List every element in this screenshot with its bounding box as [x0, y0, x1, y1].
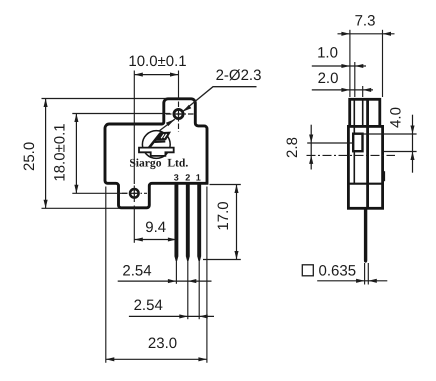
extension line at body bottom right [210, 184, 241, 186]
mounting hole top (in tab) [174, 109, 183, 118]
extension line side right edge [382, 30, 384, 97]
side view main body section [348, 126, 382, 208]
bottom hole vertical centerline [133, 186, 135, 204]
extension line bump bottom [384, 151, 417, 153]
svg-text:2.54: 2.54 [134, 297, 163, 314]
svg-text:2.54: 2.54 [122, 263, 151, 280]
pin3 extension line [175, 261, 177, 284]
pin side extension lines [364, 263, 366, 285]
dimension 25.0 line [45, 99, 47, 209]
extension line tab inner face [354, 62, 356, 97]
bottom hole horizontal centerline [122, 192, 147, 194]
dimension 18.0 line [75, 114, 77, 194]
dimension 17.0 line [236, 185, 238, 260]
svg-text:2-Ø2.3: 2-Ø2.3 [216, 67, 262, 84]
top hole vertical centerline [178, 102, 180, 132]
dimension 10.0 line [134, 74, 178, 76]
pin2 extension line [187, 261, 189, 320]
internal thin vertical (2.0 ref) [362, 100, 364, 126]
extension line at pin bottom [203, 259, 241, 261]
extension line right (top hole center) [178, 71, 180, 100]
mounting hole bottom (in lower tab) [130, 189, 139, 198]
dimension 2.0 line (outside arrows) [312, 89, 373, 91]
svg-text:2.0: 2.0 [318, 70, 339, 87]
side view top (tab) section [350, 99, 380, 126]
extension line at top hole level [72, 113, 170, 115]
svg-text:2: 2 [185, 173, 190, 183]
dimension 4.0 line (outside arrows, vertical) [412, 115, 414, 173]
extension line 2.0 ref [362, 86, 364, 97]
side view pin [364, 209, 367, 263]
svg-text:7.3: 7.3 [355, 13, 376, 30]
leader line for 2-Ø2.3 [183, 87, 257, 112]
horizontal centerline (dash-dot) [307, 154, 396, 156]
pin 1 [197, 184, 201, 261]
dimension 9.4 line [134, 239, 176, 241]
dimension 23.0 line [106, 358, 207, 360]
svg-text:10.0±0.1: 10.0±0.1 [128, 53, 186, 70]
svg-text:23.0: 23.0 [148, 335, 177, 352]
svg-text:18.0±0.1: 18.0±0.1 [52, 123, 69, 181]
pin 2 [186, 184, 190, 261]
latch bump on right face [383, 171, 385, 181]
svg-text:1: 1 [196, 173, 201, 183]
svg-text:3: 3 [174, 173, 179, 183]
dimension 2.54 first line with outside arrows [118, 280, 212, 282]
extension line bump top [357, 133, 417, 135]
internal horizontal divider [348, 183, 382, 185]
extension line left (through lower hole center) [133, 71, 135, 185]
svg-text:9.4: 9.4 [145, 219, 166, 236]
extension line side left edge [349, 30, 351, 97]
extension line body left [105, 187, 107, 363]
dimension 2.54 second line with outside arrows [129, 315, 214, 317]
dimension 1.0 line (outside arrows) [312, 65, 366, 67]
svg-text:2.8: 2.8 [284, 137, 301, 158]
dimension 7.3 line (outside arrows) [338, 33, 395, 35]
extension line bottom of package [42, 207, 120, 209]
logo circle [142, 131, 170, 159]
logo flag glyph [149, 133, 170, 148]
extension line top of package [42, 98, 167, 100]
svg-text:Siargo Ltd.: Siargo Ltd. [129, 157, 188, 170]
internal thin vertical (tab thickness) [353, 100, 355, 184]
extension line body right [206, 187, 208, 363]
svg-text:25.0: 25.0 [21, 142, 38, 171]
pin 3 [174, 184, 178, 261]
dimension 2.8 line (outside arrows, vertical) [310, 125, 312, 170]
sensor bump on left face [353, 134, 362, 152]
svg-text:4.0: 4.0 [388, 107, 405, 128]
svg-text:0.635: 0.635 [319, 263, 357, 280]
extension line at bottom hole level [72, 192, 127, 194]
front view package body outline [105, 99, 207, 208]
pin1 extension line [198, 261, 200, 320]
logo base bracket [139, 148, 174, 156]
top hole horizontal centerline [166, 113, 197, 115]
internal thick vertical [366, 100, 369, 208]
extension line bump center [307, 142, 353, 144]
svg-text:1.0: 1.0 [317, 45, 338, 62]
svg-text:17.0: 17.0 [215, 201, 232, 230]
dimension 0.635 line (outside arrows) [317, 280, 387, 282]
label square 0.635 [302, 265, 313, 276]
